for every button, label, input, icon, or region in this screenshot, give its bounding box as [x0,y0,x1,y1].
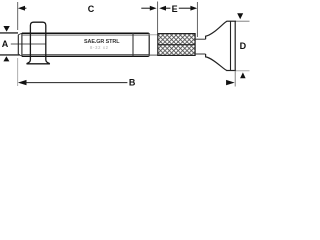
neck behind knurl bottom [195,53,206,55]
neck between shank and knurl [149,34,158,36]
extension line B right [234,71,236,87]
dimension B line [25,82,127,84]
knurl mid line [158,44,195,46]
hex nut on stud [27,22,49,64]
stud end face [17,35,19,54]
svg-text:8-32 x2: 8-32 x2 [90,45,109,50]
dimension A bottom arrow [3,56,9,61]
stud end chamfer [21,33,23,56]
thread minor line top [22,34,149,36]
extension line A top [0,32,18,34]
dimension B arrow right [226,80,235,85]
extension line left (C/B datum at stud tip) [17,2,19,30]
dimension C line right [141,7,150,9]
dimension C arrow left [18,6,25,11]
disk rim line [234,21,236,70]
dimension E line left [165,7,171,9]
shank right face [148,33,150,56]
disk face line [230,21,232,70]
leader line from A [11,43,46,45]
flare top profile [206,21,227,39]
extension line A bottom [0,54,20,56]
disk bottom edge [226,70,236,72]
dimension B arrow left [18,80,27,85]
disk top edge [227,20,237,22]
extension line C/E boundary [157,2,159,34]
svg-text:E: E [172,4,178,14]
dimension E arrow right [190,6,197,11]
threaded shank outer bottom edge [22,55,149,57]
dimension D top arrow [237,13,243,19]
extension line E right [196,2,198,37]
dimension D bottom arrow [240,72,246,78]
svg-text:D: D [240,41,247,51]
dimension E line right [179,7,192,9]
threaded shank outer top edge [22,32,149,34]
svg-text:B: B [129,77,136,87]
dimension A top arrow [3,26,9,32]
flare bottom profile [206,54,227,71]
svg-text:C: C [88,4,95,14]
thread end line [132,33,134,56]
thread minor line bottom [22,53,149,55]
extension line D bottom [236,70,250,72]
knurled section [158,34,195,56]
dimension E arrow left [159,6,166,11]
neck behind knurl top [195,38,206,40]
svg-text:A: A [2,39,9,49]
extension line D top [236,20,250,22]
dimension C arrow right [150,6,157,11]
